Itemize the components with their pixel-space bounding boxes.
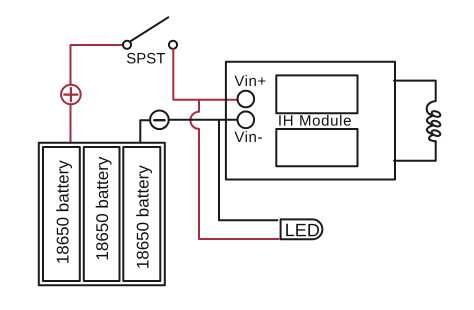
svg-text:LED: LED: [285, 220, 320, 240]
svg-text:Vin+: Vin+: [234, 73, 266, 90]
terminal Vin+: [238, 91, 255, 108]
wire minus terminal to Vin-: [169, 119, 238, 121]
svg-text:18650 battery: 18650 battery: [54, 160, 73, 264]
wire black branch to LED: [219, 120, 277, 221]
svg-text:18650 battery: 18650 battery: [93, 156, 112, 260]
module inner block top: [276, 75, 357, 113]
wire plus terminal to battery pack: [70, 104, 72, 143]
wire coil bottom to module: [394, 141, 436, 161]
battery cell 2: [84, 147, 120, 281]
switch SPST: [123, 17, 177, 49]
wire module to coil top: [394, 81, 436, 101]
battery cell 1: [43, 147, 80, 281]
wire red branch to LED with hop: [190, 100, 278, 239]
battery cell 3: [123, 147, 160, 281]
svg-text:IH Module: IH Module: [278, 113, 352, 130]
wire switch to Vin+: [173, 49, 238, 99]
inductor coil L1: [427, 101, 441, 143]
svg-text:Vin-: Vin-: [234, 129, 263, 146]
battery negative terminal -: [150, 111, 169, 130]
svg-text:18650 battery: 18650 battery: [134, 165, 153, 269]
battery positive terminal +: [61, 85, 81, 105]
terminal Vin-: [238, 112, 255, 129]
battery pack outer box: [39, 143, 165, 285]
wire minus terminal to battery pack: [140, 120, 150, 143]
svg-text:SPST: SPST: [126, 50, 165, 67]
wire battery plus to switch: [71, 45, 123, 85]
LED body: [281, 219, 323, 239]
IH module box: [226, 62, 395, 180]
module inner block bottom: [276, 129, 357, 166]
